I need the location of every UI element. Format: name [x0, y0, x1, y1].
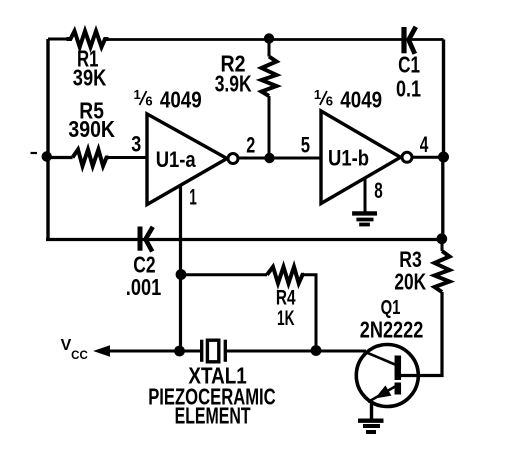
ground under Q1 — [358, 421, 384, 432]
node R3 top junction — [436, 233, 447, 244]
svg-text:Q1: Q1 — [381, 297, 401, 319]
transistor Q1 collector lead — [401, 374, 443, 377]
svg-text:0.1: 0.1 — [396, 75, 421, 101]
node R2 top junction — [264, 33, 274, 43]
wire left rail — [46, 39, 49, 240]
wire bottom rail from left corner — [46, 238, 442, 241]
svg-text:CC: CC — [71, 350, 88, 362]
transistor Q1 emitter diagonal — [368, 386, 396, 402]
resistor R3 — [435, 251, 450, 292]
capacitor C2 — [140, 227, 153, 252]
node pin1 Vcc junction — [174, 346, 185, 357]
ground under U1-b — [352, 213, 377, 224]
wire node to R4 — [181, 273, 267, 276]
resistor R2 — [262, 57, 277, 97]
wire emitter to ground — [370, 404, 373, 421]
wire R3 bottom to collector elbow — [401, 292, 443, 376]
wire U1-a pin 1 lead down — [179, 185, 182, 351]
capacitor C1 — [404, 27, 416, 54]
svg-text:U1-a: U1-a — [156, 147, 197, 172]
wire top rail — [48, 38, 67, 41]
svg-text:20K: 20K — [394, 269, 426, 295]
op-amp U1-a inverter triangle — [147, 114, 227, 205]
svg-text:1K: 1K — [277, 306, 295, 330]
node pin 4 junction — [438, 152, 449, 163]
resistor R5 — [73, 150, 109, 167]
wire node to R5 — [47, 156, 73, 159]
svg-text:6: 6 — [326, 94, 333, 109]
node pin2 pin5 junction — [264, 153, 274, 163]
svg-text:1: 1 — [134, 87, 141, 102]
resistor R4 — [267, 267, 304, 284]
tick mark left of node — [31, 152, 38, 154]
wire right rail pin4 to bottom node — [441, 157, 444, 236]
svg-text:2N2222: 2N2222 — [360, 317, 424, 343]
svg-text:6: 6 — [145, 94, 152, 109]
svg-text:1: 1 — [189, 185, 197, 210]
wire top rail to C1 — [109, 38, 444, 41]
svg-text:5: 5 — [301, 132, 310, 157]
svg-text:.001: .001 — [126, 274, 161, 300]
wire U1-a output to U1-b input — [239, 157, 321, 160]
wire R2 top lead — [268, 39, 271, 57]
wire R5 to U1-a pin 3 — [109, 156, 148, 159]
svg-text:C1: C1 — [398, 51, 420, 77]
label 1/6 for U1-b — [314, 87, 333, 109]
Vcc arrow head — [95, 346, 110, 356]
node R4 base junction — [311, 345, 322, 356]
svg-text:3.9K: 3.9K — [215, 70, 252, 96]
wire Vcc to XTAL — [108, 350, 200, 353]
U1-a output bubble — [228, 154, 238, 164]
svg-text:4: 4 — [420, 132, 429, 157]
transistor Q1 emitter arrow — [376, 386, 390, 398]
transistor Q1 circle — [356, 345, 418, 407]
wire U1-b output to right rail — [413, 156, 444, 159]
transistor Q1 bar — [395, 356, 402, 395]
wire R2 bottom lead — [268, 96, 271, 158]
wire R3 top lead — [441, 239, 444, 252]
resistor R1 — [67, 31, 109, 47]
node pin1 R4 junction — [176, 269, 187, 280]
label Vcc — [61, 337, 88, 362]
wire XTAL to Q1 base — [227, 350, 366, 353]
label 1/6 for U1-a — [134, 87, 153, 109]
svg-text:8: 8 — [374, 178, 383, 203]
svg-text:4049: 4049 — [160, 86, 202, 112]
crystal XTAL1 — [202, 340, 226, 362]
svg-text:1: 1 — [314, 87, 321, 102]
wire U1-b pin 8 lead — [364, 178, 367, 212]
transistor Q1 base diagonal — [363, 351, 395, 365]
svg-text:V: V — [61, 337, 72, 354]
svg-text:2: 2 — [246, 132, 255, 157]
svg-text:390K: 390K — [68, 116, 115, 142]
op-amp U1-b inverter triangle — [321, 111, 401, 204]
svg-text:U1-b: U1-b — [328, 146, 369, 171]
svg-text:4049: 4049 — [340, 86, 382, 112]
wire R4 to elbow down — [304, 275, 316, 351]
svg-text:3: 3 — [131, 132, 141, 157]
node left junction — [42, 151, 52, 161]
svg-text:ELEMENT: ELEMENT — [175, 403, 251, 429]
wire C1 to right corner — [442, 40, 445, 158]
U1-b output bubble — [402, 152, 412, 162]
svg-text:39K: 39K — [73, 65, 107, 91]
